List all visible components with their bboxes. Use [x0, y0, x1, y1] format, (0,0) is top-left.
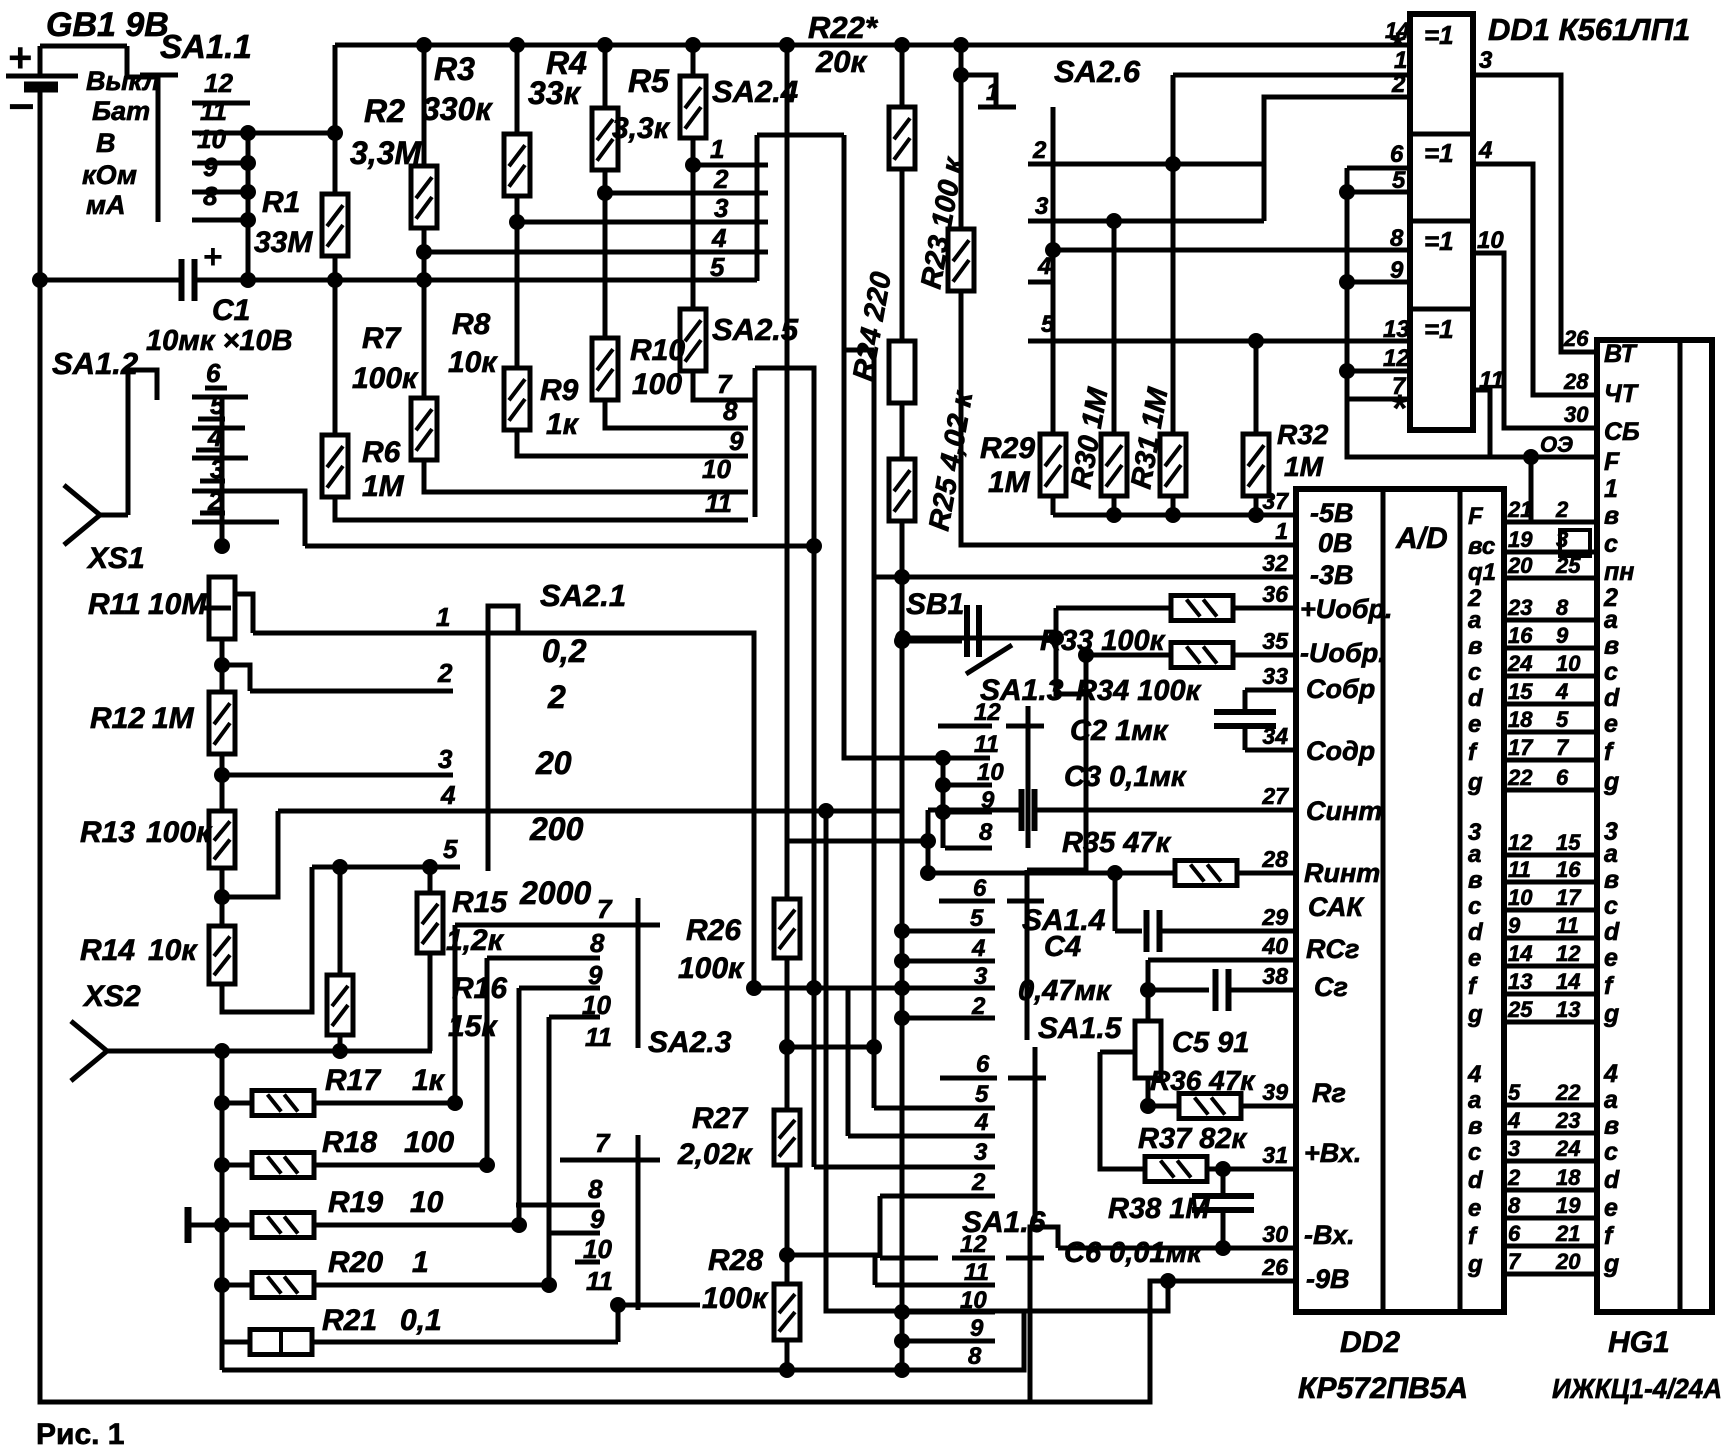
svg-text:d: d: [1468, 919, 1484, 946]
resistor R23: [948, 229, 974, 291]
svg-text:20: 20: [1555, 1249, 1581, 1274]
wire tap pin2: [222, 665, 250, 691]
wire C2 bottom lead: [1243, 726, 1248, 750]
junction C6 top: [1215, 1161, 1231, 1177]
junction R5 pin1: [685, 157, 701, 173]
junction top bus x787: [779, 37, 795, 53]
resistor R19: [252, 1213, 314, 1238]
junction R7 top bus: [416, 272, 432, 288]
svg-text:в: в: [1604, 1112, 1619, 1140]
resistor R27: [774, 1110, 800, 1165]
svg-text:29: 29: [1261, 904, 1288, 930]
resistor R9: [592, 338, 618, 400]
svg-text:а: а: [1604, 840, 1618, 868]
svg-text:R13: R13: [80, 816, 135, 849]
svg-text:18: 18: [1508, 707, 1533, 732]
resistor R14: [209, 926, 235, 984]
junction F line x1531: [1523, 449, 1539, 465]
wire DD2 pin6 to HG1 pin21: [1504, 1244, 1597, 1249]
wire SA2.2 pin9 line: [487, 956, 600, 961]
capacitor C6: [1192, 1196, 1254, 1210]
svg-text:R22*: R22*: [808, 10, 879, 45]
wire SA2.3 pin7 cross: [612, 1158, 660, 1163]
wire R34 to DD2 pin35: [1233, 653, 1296, 658]
wire C4 to cap: [1115, 929, 1142, 934]
svg-text:7: 7: [595, 1128, 611, 1158]
wire C4 drop: [1113, 873, 1118, 931]
junction x1347 y371: [1339, 363, 1355, 379]
svg-text:3: 3: [1035, 193, 1049, 220]
svg-text:23: 23: [1555, 1108, 1580, 1133]
svg-text:1: 1: [412, 1246, 429, 1279]
wire DD2 pin17 to HG1 pin7: [1504, 758, 1597, 763]
connector XS2: [71, 1021, 107, 1081]
wire R8 bottom to pin9 line: [517, 430, 748, 456]
capacitor C3: [1022, 789, 1035, 831]
svg-text:g: g: [1467, 769, 1483, 796]
svg-text:R33 100к: R33 100к: [1040, 625, 1166, 657]
svg-text:1к: 1к: [546, 408, 580, 441]
wire R19 right: [314, 1223, 519, 1228]
wire SA2.1 pin5: [312, 865, 460, 870]
svg-text:16: 16: [1508, 623, 1533, 648]
switch SA2.1 rotor bracket: [488, 606, 518, 871]
svg-text:=1: =1: [1424, 138, 1454, 168]
junction R2 pin4: [416, 244, 432, 260]
wire SA2.3 pin7 line: [560, 1158, 612, 1163]
junction -5V bus x1256: [1248, 507, 1264, 523]
wire Cint line left: [928, 808, 1022, 813]
wire SA1.6 pin12 tick: [880, 1256, 938, 1261]
svg-text:-Вх.: -Вх.: [1304, 1220, 1355, 1250]
svg-text:R17: R17: [325, 1064, 381, 1097]
wire DD2 pin25 to HG1 pin13: [1504, 1020, 1597, 1025]
junction R11 R12: [214, 657, 230, 673]
wire R15 bottom: [428, 953, 433, 1051]
wire R33 left drop: [1056, 608, 1086, 694]
svg-text:2: 2: [971, 1169, 986, 1196]
svg-text:10к: 10к: [148, 934, 198, 967]
svg-text:3: 3: [1479, 47, 1493, 74]
wire R21 left: [222, 1340, 250, 1345]
wire SA1.6 pin10: [902, 1310, 995, 1315]
junction SA1.1 lower: [240, 212, 256, 228]
wire second crossover down: [872, 350, 877, 1108]
svg-text:10: 10: [702, 454, 731, 484]
wire R11 tap: [233, 594, 253, 633]
svg-text:SA2.1: SA2.1: [540, 578, 626, 613]
wire SA2.4 crossover down: [844, 135, 990, 758]
svg-text:R27: R27: [692, 1102, 748, 1135]
wire SA1.6 pin11: [875, 1283, 995, 1288]
svg-text:19: 19: [1556, 1193, 1581, 1218]
svg-text:вс: вс: [1468, 533, 1495, 560]
wire DD2 pin7 to HG1 pin20: [1504, 1272, 1597, 1277]
junction top bus x902: [894, 37, 910, 53]
svg-text:−: −: [8, 80, 35, 132]
svg-text:g: g: [1603, 1250, 1619, 1278]
svg-text:5: 5: [1508, 1080, 1521, 1105]
wire SA2.1 pin4: [278, 809, 460, 814]
wire SA1.1 rotor bracket: [127, 46, 158, 222]
wire R11 to R12: [220, 639, 225, 692]
wire C5 tap tick: [1100, 1050, 1133, 1055]
junction x1347 y282: [1339, 274, 1355, 290]
svg-text:11: 11: [586, 1266, 613, 1296]
wire SA1.5 pin3: [814, 1165, 995, 1170]
svg-text:5: 5: [443, 834, 458, 864]
svg-text:100к: 100к: [678, 952, 745, 985]
svg-text:HG1: HG1: [1608, 1326, 1670, 1359]
wire SA1.2 pin3 line: [192, 491, 305, 546]
wire DD2 pin23 to HG1 pin8: [1504, 618, 1597, 623]
junction pin13 R32: [1248, 333, 1264, 349]
svg-text:1: 1: [1604, 475, 1618, 503]
svg-text:12: 12: [1556, 941, 1581, 966]
svg-text:9: 9: [590, 1204, 605, 1234]
svg-text:37: 37: [1262, 488, 1289, 514]
wire DD1 section2-4 connector: [1345, 168, 1350, 399]
wire R23 top: [959, 45, 964, 229]
wire DD2 pin22 to HG1 pin6: [1504, 788, 1597, 793]
wire DD1 pin3 to HG1 ВТ: [1473, 75, 1597, 352]
junction SA1.2 R11: [214, 538, 230, 554]
svg-text:g: g: [1603, 768, 1619, 796]
svg-text:21: 21: [1555, 1221, 1580, 1246]
wire F net drop to DD2 pin21: [1529, 457, 1534, 522]
svg-text:34: 34: [1262, 723, 1288, 749]
wire SA1.1 pin9 contact: [192, 161, 250, 166]
wire R26R27 tap to SA1.5 pin5: [787, 1045, 874, 1050]
svg-text:33к: 33к: [528, 75, 582, 111]
svg-text:+: +: [203, 238, 223, 276]
svg-text:F: F: [1468, 503, 1484, 530]
svg-text:12: 12: [974, 699, 1001, 726]
svg-text:в: в: [1604, 866, 1619, 894]
svg-text:с: с: [1468, 659, 1481, 686]
svg-text:R10: R10: [630, 334, 685, 367]
junction R18 right: [479, 1157, 495, 1173]
svg-text:С3 0,1мк: С3 0,1мк: [1064, 761, 1187, 793]
svg-text:d: d: [1604, 918, 1620, 946]
resistor R36: [1179, 1094, 1241, 1119]
wire left border loop: [40, 87, 1296, 1402]
wire SA1.3 pin bus: [941, 753, 946, 848]
wire R9 bottom to pin8 line: [605, 400, 748, 428]
svg-text:15: 15: [1556, 830, 1581, 855]
svg-text:22: 22: [1555, 1080, 1581, 1105]
wire DD2 pin13 to HG1 pin14: [1504, 992, 1597, 997]
wire R4 bottom to R9: [603, 170, 608, 338]
wire R17 left: [222, 1101, 252, 1106]
wire SA1.2 tick1: [205, 386, 227, 391]
svg-text:DD2: DD2: [1340, 1326, 1400, 1359]
svg-text:R29: R29: [980, 432, 1035, 465]
wire DD2 pin24 to HG1 pin10: [1504, 674, 1597, 679]
svg-text:R16: R16: [452, 972, 507, 1005]
svg-text:4: 4: [1037, 253, 1051, 280]
resistor R25: [889, 459, 915, 521]
capacitor C1: [182, 259, 195, 301]
junction top bus x961: [953, 37, 969, 53]
svg-text:С6 0,01мк: С6 0,01мк: [1064, 1237, 1203, 1269]
wire DD1 pin7: [1347, 397, 1410, 402]
svg-text:С5 91: С5 91: [1172, 1027, 1249, 1059]
capacitor C2: [1214, 712, 1276, 726]
svg-text:10: 10: [1556, 651, 1581, 676]
junction pin3 R30: [1106, 213, 1122, 229]
switch SA1.6 rotor bracket: [1030, 1227, 1058, 1400]
wire SA1.3 wiper arrow: [966, 645, 1012, 674]
junction x902 y1312: [894, 1304, 910, 1320]
wire C2 top lead: [1243, 690, 1248, 712]
svg-text:*: *: [1390, 25, 1406, 69]
wire R33 line: [1056, 606, 1171, 611]
svg-text:8: 8: [1508, 1193, 1521, 1218]
wire pin2 to SA1.6 pin12: [878, 1196, 883, 1258]
svg-text:7: 7: [717, 369, 733, 399]
resistor R12: [209, 692, 235, 754]
junction SA1.1 pin10: [240, 125, 256, 141]
svg-text:23: 23: [1507, 595, 1532, 620]
wire DD2 pin16 to HG1 pin9: [1504, 646, 1597, 651]
resistor R8: [504, 368, 530, 430]
svg-text:20: 20: [1507, 553, 1533, 578]
wire Cg drop: [1146, 960, 1151, 1021]
wire DD2 pin2 to HG1 pin18: [1504, 1188, 1597, 1193]
svg-text:100к: 100к: [702, 1282, 769, 1315]
junction pin5 R16: [332, 859, 348, 875]
resistor R10: [680, 309, 706, 371]
svg-text:1М: 1М: [152, 702, 195, 735]
svg-text:=1: =1: [1424, 226, 1454, 256]
svg-text:е: е: [1468, 711, 1481, 738]
junction top bus x424: [416, 37, 432, 53]
svg-text:12: 12: [204, 68, 233, 98]
wire SA1.2 tick8: [200, 511, 225, 516]
wire -Вх line pin30: [1058, 1246, 1296, 1251]
junction x902 y989: [894, 980, 910, 996]
junction R18 left: [214, 1157, 230, 1173]
junction SA1.3 x903: [895, 630, 911, 646]
wire SA2.6 pin5 to DD1 pin13: [1028, 339, 1410, 344]
junction XS2 R16: [332, 1043, 348, 1059]
svg-text:10мк ×10В: 10мк ×10В: [146, 325, 293, 357]
junction R28 bottom: [779, 1362, 795, 1378]
svg-text:Рис. 1: Рис. 1: [36, 1418, 125, 1451]
wire SA1.5 pin2: [880, 1194, 995, 1199]
wire SA1.2 tick2: [192, 395, 248, 400]
switch SA2.4 rotor bar: [755, 135, 760, 281]
svg-text:R19: R19: [328, 1186, 383, 1219]
wire SA1.5 pin6 cross: [1008, 1076, 1046, 1081]
svg-text:6: 6: [976, 1051, 990, 1078]
svg-text:Содр: Содр: [1306, 736, 1375, 766]
wire R23 to DD2 pin1: [961, 291, 1296, 545]
svg-text:Сг: Сг: [1314, 972, 1348, 1002]
junction R4 pin2: [597, 185, 613, 201]
wire R27R28 tap to SA1.6 pin11: [787, 1255, 875, 1285]
wire SA2.3 pin8 line: [516, 1203, 600, 1208]
svg-text:0,47мк: 0,47мк: [1018, 975, 1112, 1007]
wire DD2 pin15 to HG1 pin4: [1504, 702, 1597, 707]
resistor R31: [1160, 434, 1186, 496]
wire DD2 pin21 to HG1 pin2: [1504, 520, 1597, 525]
display HG1 ИЖКЦ1-4/24А body: [1597, 340, 1712, 1312]
junction R13 R14: [214, 889, 230, 905]
svg-text:14: 14: [1556, 969, 1580, 994]
junction SA1.3 pin11: [935, 750, 951, 766]
svg-text:DD1 К561ЛП1: DD1 К561ЛП1: [1488, 12, 1690, 47]
svg-text:17: 17: [1556, 885, 1582, 910]
resistor R37: [1145, 1157, 1207, 1182]
svg-text:28: 28: [1261, 846, 1288, 872]
wire SA1.4 pin3: [754, 986, 995, 991]
junction Cg: [1140, 982, 1156, 998]
svg-text:10: 10: [410, 1186, 444, 1219]
svg-text:ВТ: ВТ: [1604, 340, 1638, 368]
wire DD2 pin3 to HG1 pin24: [1504, 1159, 1597, 1164]
wire C5 bottom: [1146, 1078, 1151, 1106]
junction C1 SA1.1 bus: [240, 272, 256, 288]
wire DD1 pin5: [1347, 190, 1410, 195]
wire R2 column top: [422, 45, 427, 166]
svg-text:5: 5: [710, 252, 725, 282]
wire R22 to R24: [900, 169, 905, 341]
junction pin3 x754: [746, 980, 762, 996]
wire R25 down switch column: [900, 521, 905, 1370]
wire R31 column: [1171, 75, 1176, 434]
svg-text:24: 24: [1507, 651, 1532, 676]
wire R24 to R25: [900, 403, 905, 459]
wire SA2.3 pin10 line: [575, 1260, 600, 1265]
resistor R6: [322, 435, 348, 497]
wire R36 left: [1148, 1104, 1179, 1109]
wire SA2.6 pin2 to R31 column: [1028, 162, 1264, 167]
svg-text:36: 36: [1262, 581, 1288, 607]
wire SA2.1 pin1: [253, 631, 466, 636]
wire SA1.3 pin10 tick: [945, 783, 992, 788]
svg-text:R32: R32: [1277, 419, 1329, 450]
svg-text:6: 6: [206, 358, 221, 388]
capacitor Cg pin38: [1216, 969, 1229, 1011]
svg-text:ЧТ: ЧТ: [1604, 380, 1640, 408]
wire SA1.4 pin4: [902, 959, 995, 964]
wire SA1.2 tick6: [192, 456, 248, 461]
svg-text:R34 100к: R34 100к: [1076, 675, 1202, 707]
svg-text:1М: 1М: [988, 466, 1031, 499]
wire R bottom x1173: [1171, 496, 1176, 515]
svg-text:9: 9: [1556, 623, 1569, 648]
IC DD2 КР572ПВ5А body: [1296, 489, 1504, 1312]
svg-text:XS2: XS2: [82, 980, 141, 1013]
svg-text:R1: R1: [262, 186, 300, 219]
wire SA2.1 pin3: [222, 773, 453, 778]
junction R26 R27: [779, 1039, 795, 1055]
svg-text:в: в: [1604, 502, 1619, 530]
junction R3 pin3: [509, 214, 525, 230]
wire SA1.5 pin5: [874, 1106, 995, 1111]
wire RCg line pin40: [1148, 958, 1296, 963]
wire DD2 pin19 to HG1 pin3: [1504, 550, 1597, 555]
svg-text:6: 6: [1508, 1221, 1521, 1246]
wire SA2.4 pin1: [693, 163, 768, 168]
svg-text:Выкл: Выкл: [86, 66, 160, 96]
svg-text:R6: R6: [362, 436, 401, 469]
svg-text:0,2: 0,2: [542, 633, 587, 669]
wire R30 top: [1112, 221, 1117, 434]
wire R34 line: [1086, 653, 1171, 658]
wire crossover jog: [844, 348, 874, 353]
resistor R29: [1040, 434, 1066, 496]
wire pin4 feed: [222, 811, 278, 897]
svg-text:Rг: Rг: [1312, 1078, 1346, 1108]
junction x902 y1018: [894, 1010, 910, 1026]
junction R36: [1140, 1098, 1156, 1114]
wire pin4 drop: [846, 988, 851, 1136]
svg-text:R15: R15: [452, 886, 508, 919]
svg-text:26: 26: [1261, 1254, 1288, 1280]
wire battery positive to SA1.1: [40, 44, 127, 49]
wire SA1.6 pin12 cross: [1006, 1256, 1044, 1261]
wire R bottom x1114: [1112, 496, 1117, 515]
junction top bus x605: [597, 37, 613, 53]
svg-text:19: 19: [1508, 527, 1533, 552]
wire R6 column: [333, 280, 338, 435]
wire SA2.2 pin11 line: [549, 1015, 600, 1020]
svg-text:а: а: [1468, 1087, 1481, 1114]
svg-text:R26: R26: [686, 914, 741, 947]
svg-text:d: d: [1468, 685, 1484, 712]
wire R22 top: [900, 45, 905, 107]
wire -5V bus pin37: [1053, 513, 1296, 518]
wire SA2.4 pin2: [605, 191, 768, 196]
wire DD2 pin4 to HG1 pin23: [1504, 1131, 1597, 1136]
svg-text:13: 13: [1556, 997, 1580, 1022]
svg-text:33: 33: [1262, 663, 1288, 689]
svg-text:4: 4: [971, 935, 985, 962]
switch SA2.2 rotor bar: [636, 898, 641, 1048]
svg-text:Собр: Собр: [1306, 674, 1375, 704]
svg-text:SA1.2: SA1.2: [52, 346, 138, 381]
resistor R21: [250, 1330, 312, 1355]
junction R19 left: [214, 1217, 230, 1233]
wire R5 column top: [691, 45, 696, 76]
svg-text:R9: R9: [540, 374, 579, 407]
junction R20 right: [541, 1277, 557, 1293]
wire DD1 pin9: [1347, 280, 1410, 285]
wire SA1.3 pin9 tick: [945, 810, 992, 815]
svg-text:RСг: RСг: [1306, 934, 1359, 964]
junction R19 right: [511, 1217, 527, 1233]
svg-text:d: d: [1604, 1166, 1620, 1194]
wire y75 to SA2.6: [961, 75, 996, 107]
svg-text:14: 14: [1508, 941, 1532, 966]
wire SA2.4 rotor to crossover: [757, 133, 844, 138]
wire R1 column: [333, 45, 338, 194]
svg-text:С2 1мк: С2 1мк: [1070, 715, 1169, 747]
svg-text:F: F: [1604, 448, 1620, 476]
wire SA1.1 pin11 contact: [192, 101, 250, 106]
resistor R34: [1171, 643, 1233, 668]
wire R1 to bus: [333, 256, 338, 280]
svg-text:а: а: [1604, 1086, 1618, 1114]
junction x928 y841: [920, 833, 936, 849]
svg-text:R2: R2: [364, 93, 405, 129]
svg-text:100: 100: [632, 368, 682, 401]
svg-text:30: 30: [1564, 402, 1589, 427]
wire R7 bottom to pin10 line: [424, 460, 748, 492]
